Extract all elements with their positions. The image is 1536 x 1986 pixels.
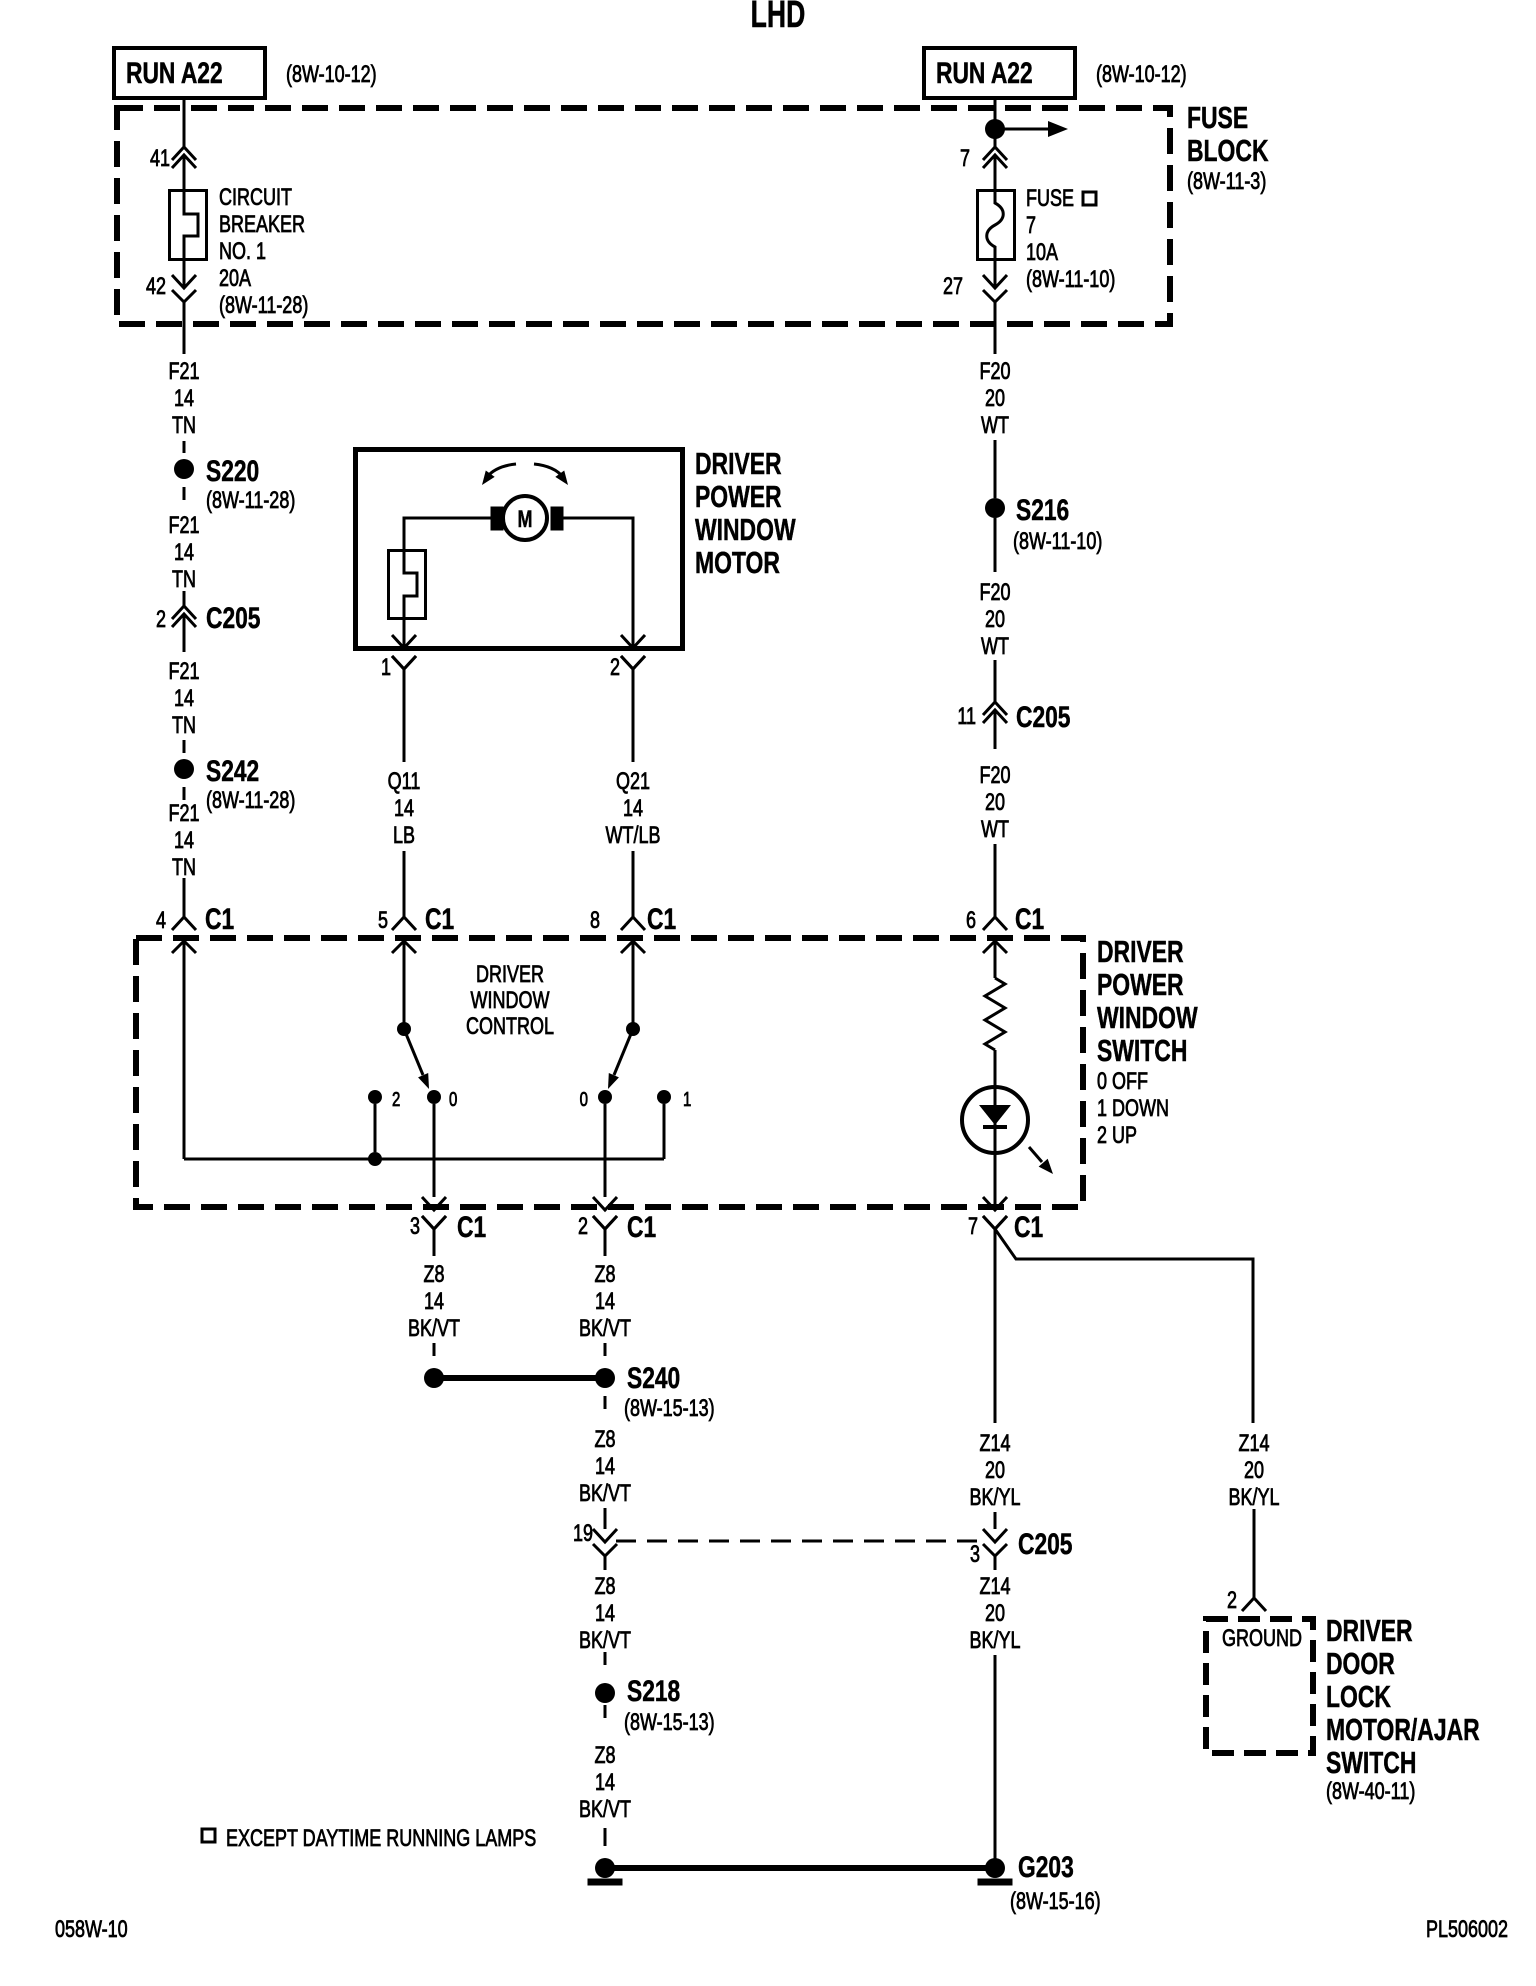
svg-text:4: 4 — [156, 908, 166, 934]
wire dash above S240 left — [433, 1343, 436, 1356]
wire dash below S220 — [183, 487, 186, 500]
svg-text:2: 2 — [610, 655, 620, 681]
svg-text:Z8: Z8 — [594, 1574, 615, 1600]
svg-text:C1: C1 — [425, 902, 454, 936]
driver power window switch boundary (dashed) — [136, 938, 1083, 1207]
wire pin41 to circuit breaker — [183, 155, 186, 190]
wire label F21 14 TN (1) — [168, 359, 199, 439]
title LHD — [751, 0, 806, 35]
connector pin 27 — [943, 274, 1007, 302]
svg-text:DRIVER: DRIVER — [695, 446, 782, 481]
wire label Z8 14 BK/VT (4) — [579, 1743, 631, 1823]
wire F20 to S216 — [994, 440, 997, 498]
svg-text:F20: F20 — [979, 580, 1010, 606]
fuse block boundary (dashed) — [117, 108, 1170, 324]
connector 3 C205 — [970, 1527, 1073, 1568]
svg-text:TN: TN — [172, 413, 196, 439]
svg-text:DOOR: DOOR — [1326, 1646, 1395, 1681]
label DRIVER WINDOW CONTROL — [466, 962, 554, 1040]
svg-text:BK/VT: BK/VT — [579, 1481, 631, 1507]
svg-text:(8W-15-13): (8W-15-13) — [624, 1396, 715, 1422]
connector pin 3 C1 — [410, 1197, 486, 1244]
svg-text:20A: 20A — [219, 266, 252, 292]
driver power window motor box — [356, 450, 683, 649]
svg-text:(8W-15-16): (8W-15-16) — [1010, 1889, 1101, 1915]
svg-text:5: 5 — [378, 908, 388, 934]
svg-text:F21: F21 — [168, 801, 199, 827]
svg-text:1: 1 — [683, 1088, 691, 1111]
svg-text:8: 8 — [590, 908, 600, 934]
wire motor pin2 down — [632, 669, 635, 762]
wire Q11 to pin 5 — [403, 851, 406, 917]
svg-text:0: 0 — [580, 1088, 588, 1111]
node RUN A22 (right feed box) — [924, 48, 1075, 98]
svg-text:Z8: Z8 — [423, 1262, 444, 1288]
svg-text:C1: C1 — [1014, 1210, 1043, 1244]
svg-text:14: 14 — [623, 796, 643, 822]
svg-text:14: 14 — [595, 1454, 615, 1480]
sheet number 058W-10 — [55, 1917, 128, 1943]
svg-text:14: 14 — [174, 540, 194, 566]
wire F21 to pin 4 C1 — [183, 878, 186, 917]
svg-text:LHD: LHD — [751, 0, 806, 35]
daytime-lamp footnote square (fuse) — [1083, 192, 1096, 205]
wire pin27 to box edge — [994, 302, 997, 327]
motor rotation arc right — [534, 464, 568, 485]
svg-text:LOCK: LOCK — [1326, 1679, 1391, 1714]
wire branch pin7 to door lock — [995, 1229, 1253, 1423]
wire pin 5 to left switch pivot — [403, 941, 406, 1024]
wire fuse to pin 27 — [994, 258, 997, 288]
motor rotation arc left — [482, 464, 516, 485]
svg-text:LB: LB — [393, 823, 415, 849]
wire breaker to motor pin 1 — [403, 617, 406, 648]
svg-text:SWITCH: SWITCH — [1326, 1745, 1416, 1780]
svg-text:GROUND: GROUND — [1222, 1626, 1302, 1652]
svg-text:CIRCUIT: CIRCUIT — [219, 185, 292, 211]
svg-text:NO. 1: NO. 1 — [219, 239, 266, 265]
circuit breaker no.1 CB1 — [170, 191, 207, 260]
svg-text:TN: TN — [172, 855, 196, 881]
label (8W-10-12) left — [286, 62, 377, 88]
svg-text:Z14: Z14 — [979, 1574, 1010, 1600]
left switch arm (to 0) — [404, 1029, 429, 1089]
svg-text:WT: WT — [981, 817, 1009, 843]
wire pin7 to fuse — [994, 155, 997, 190]
svg-text:WT: WT — [981, 413, 1009, 439]
svg-text:TN: TN — [172, 567, 196, 593]
wire dash below S240 — [604, 1396, 607, 1409]
svg-text:BK/YL: BK/YL — [969, 1485, 1020, 1511]
svg-text:2: 2 — [1227, 1588, 1237, 1614]
LED indicator — [962, 1087, 1053, 1205]
footnote EXCEPT DAYTIME RUNNING LAMPS — [202, 1826, 536, 1852]
connector pin 7 (fuse feed) — [960, 146, 1007, 172]
svg-text:20: 20 — [985, 790, 1005, 816]
wire dash above S240 right — [604, 1343, 607, 1356]
connector pin 6 C1 — [966, 902, 1044, 953]
svg-text:POWER: POWER — [1097, 967, 1184, 1002]
wire S216 down — [994, 518, 997, 572]
connector pin 4 C1 — [156, 902, 234, 953]
wire from RUN A22 right into fuse block — [994, 98, 997, 147]
wire motor right lead — [563, 518, 633, 648]
wire label Z14 20 BK/YL (branch) — [1228, 1431, 1279, 1511]
connector pin 41 — [150, 146, 196, 172]
node RUN A22 (left feed box) — [114, 48, 265, 98]
motor M1 (window motor) — [491, 496, 563, 540]
svg-text:20: 20 — [985, 1601, 1005, 1627]
wire up to contact 1 — [663, 1104, 666, 1159]
svg-text:(8W-10-12): (8W-10-12) — [1096, 62, 1187, 88]
svg-text:C205: C205 — [1018, 1527, 1073, 1561]
wire pin 3 down — [433, 1229, 436, 1256]
motor internal circuit breaker — [389, 551, 426, 619]
svg-text:WT/LB: WT/LB — [606, 823, 661, 849]
svg-text:(8W-11-10): (8W-11-10) — [1026, 267, 1115, 293]
wire dash above S220 — [183, 441, 186, 453]
connector pin 5 C1 — [378, 902, 454, 953]
splice S218 — [595, 1674, 715, 1736]
svg-text:11: 11 — [957, 704, 976, 730]
svg-text:EXCEPT DAYTIME RUNNING LAMPS: EXCEPT DAYTIME RUNNING LAMPS — [226, 1826, 536, 1852]
wire F20 to pin 6 C1 — [994, 844, 997, 917]
contact 1 node — [657, 1088, 691, 1111]
svg-text:2: 2 — [392, 1088, 400, 1111]
wire label F21 14 TN (4) — [168, 801, 199, 881]
svg-text:2 UP: 2 UP — [1097, 1123, 1137, 1149]
wire label F20 20 WT (2) — [979, 580, 1010, 660]
svg-text:FUSE: FUSE — [1026, 186, 1074, 212]
wire fuse block to F20 label — [994, 327, 997, 354]
svg-text:C205: C205 — [206, 601, 261, 635]
svg-text:FUSE: FUSE — [1187, 100, 1248, 135]
sheet code PL506002 — [1426, 1917, 1508, 1943]
svg-text:(8W-11-3): (8W-11-3) — [1187, 169, 1266, 195]
svg-text:27: 27 — [943, 274, 963, 300]
splice S216 — [985, 493, 1102, 555]
svg-text:20: 20 — [1244, 1458, 1264, 1484]
label CIRCUIT BREAKER NO. 1 20A (8W-11-28) — [219, 185, 308, 319]
svg-text:RUN A22: RUN A22 — [936, 56, 1033, 90]
svg-text:Z14: Z14 — [1238, 1431, 1269, 1457]
label DRIVER POWER WINDOW MOTOR — [695, 446, 796, 580]
svg-text:(8W-11-28): (8W-11-28) — [206, 788, 295, 814]
wire dash above ground — [604, 1828, 607, 1846]
connector pin 7 C1 — [968, 1197, 1043, 1244]
svg-text:7: 7 — [960, 146, 970, 172]
ground bus wire — [605, 1865, 995, 1871]
svg-text:BK/VT: BK/VT — [408, 1316, 460, 1342]
wire Z14 to ground G203 — [994, 1655, 997, 1868]
svg-text:BLOCK: BLOCK — [1187, 133, 1269, 168]
wire label Q21 14 WT/LB — [606, 769, 661, 849]
svg-text:(8W-40-11): (8W-40-11) — [1326, 1779, 1415, 1805]
wire label Z14 20 BK/YL (main 2) — [969, 1574, 1020, 1654]
svg-text:F20: F20 — [979, 763, 1010, 789]
svg-text:C1: C1 — [627, 1210, 656, 1244]
svg-text:S242: S242 — [206, 754, 259, 788]
label DRIVER DOOR LOCK MOTOR/AJAR SWITCH (8W-40-11) — [1326, 1613, 1480, 1805]
svg-text:DRIVER: DRIVER — [1326, 1613, 1413, 1648]
svg-text:14: 14 — [424, 1289, 444, 1315]
svg-text:Q21: Q21 — [616, 769, 650, 795]
wire pin 4 run down — [183, 941, 186, 1159]
splice S242 — [174, 754, 295, 814]
wire label Z8 14 BK/VT (pin3) — [408, 1262, 460, 1342]
svg-text:G203: G203 — [1018, 1850, 1074, 1884]
svg-text:BK/VT: BK/VT — [579, 1628, 631, 1654]
contact 2 node — [368, 1088, 400, 1111]
svg-text:(8W-10-12): (8W-10-12) — [286, 62, 377, 88]
svg-text:(8W-11-28): (8W-11-28) — [219, 293, 308, 319]
label (8W-10-12) right — [1096, 62, 1187, 88]
svg-text:Z14: Z14 — [979, 1431, 1010, 1457]
svg-text:14: 14 — [595, 1601, 615, 1627]
svg-text:(8W-11-10): (8W-11-10) — [1013, 529, 1102, 555]
svg-text:BK/YL: BK/YL — [969, 1628, 1020, 1654]
wire pin4 horizontal run — [184, 1158, 664, 1161]
contact 0 node (left) — [427, 1088, 457, 1111]
wire dash below S218 — [604, 1705, 607, 1718]
wire pin 6 to resistor — [994, 941, 997, 978]
junction node on feed wire — [985, 119, 1005, 139]
wire motor left lead — [404, 518, 491, 550]
svg-text:C205: C205 — [1016, 700, 1071, 734]
label GROUND — [1222, 1626, 1302, 1652]
svg-text:WINDOW: WINDOW — [471, 988, 550, 1014]
wire contact 0 to pin 2 — [604, 1104, 607, 1197]
wire F20 to C205 pin 11 — [994, 660, 997, 702]
wire from RUN A22 left into fuse block — [183, 98, 186, 147]
svg-text:MOTOR: MOTOR — [695, 545, 780, 580]
svg-text:(8W-11-28): (8W-11-28) — [206, 488, 295, 514]
svg-text:WT: WT — [981, 634, 1009, 660]
left switch pivot node — [397, 1022, 411, 1036]
wire Z8 to pin 19 — [604, 1508, 607, 1529]
right switch pivot node — [626, 1022, 640, 1036]
svg-text:19: 19 — [573, 1521, 593, 1547]
wire C205 to F20 label — [994, 710, 997, 749]
wire dash below S242 — [183, 787, 186, 800]
wire Q21 to pin 8 — [632, 851, 635, 917]
svg-text:7: 7 — [1026, 213, 1036, 239]
junction node on pin4 run — [368, 1152, 382, 1166]
driver door lock motor/ajar switch boundary (dashed) — [1206, 1619, 1313, 1753]
label FUSE 7 10A (8W-11-10) — [1026, 186, 1115, 293]
svg-text:14: 14 — [174, 386, 194, 412]
svg-text:14: 14 — [394, 796, 414, 822]
label DRIVER POWER WINDOW SWITCH 0 OFF 1 DOWN 2 UP — [1097, 934, 1198, 1149]
svg-text:DRIVER: DRIVER — [1097, 934, 1184, 969]
svg-text:WINDOW: WINDOW — [695, 512, 796, 547]
dashed link 19 to C205 — [616, 1540, 984, 1543]
svg-text:F21: F21 — [168, 513, 199, 539]
svg-text:S218: S218 — [627, 1674, 680, 1708]
svg-text:POWER: POWER — [695, 479, 782, 514]
svg-text:BK/YL: BK/YL — [1228, 1485, 1279, 1511]
svg-text:BK/VT: BK/VT — [579, 1797, 631, 1823]
svg-text:1 DOWN: 1 DOWN — [1097, 1096, 1169, 1122]
svg-text:RUN A22: RUN A22 — [126, 56, 223, 90]
svg-text:14: 14 — [595, 1289, 615, 1315]
wire label Q11 14 LB — [388, 769, 421, 849]
splice S220 — [174, 454, 295, 514]
wire motor pin1 down — [403, 669, 406, 762]
svg-text:PL506002: PL506002 — [1426, 1917, 1508, 1943]
connector pin 2 (door lock ground) — [1227, 1588, 1266, 1614]
wire pin 7 down — [994, 1229, 997, 1423]
svg-text:Z8: Z8 — [594, 1427, 615, 1453]
wire pin42 to box edge — [183, 302, 186, 327]
wire label Z8 14 BK/VT (pin2) — [579, 1262, 631, 1342]
motor pin 2 connector — [610, 635, 645, 681]
wire dash above S218 — [604, 1652, 607, 1665]
svg-text:7: 7 — [968, 1214, 978, 1240]
svg-text:10A: 10A — [1026, 240, 1059, 266]
splice S240 (bus bar) — [424, 1361, 715, 1422]
svg-text:F21: F21 — [168, 659, 199, 685]
wire label F20 20 WT (1) — [979, 359, 1010, 439]
svg-text:S220: S220 — [206, 454, 259, 488]
svg-text:F20: F20 — [979, 359, 1010, 385]
connector pin 2 C1 — [578, 1197, 656, 1244]
ground node left — [588, 1858, 622, 1885]
wire dash above S242 — [183, 740, 186, 753]
wire label Z14 20 BK/YL (main 1) — [969, 1431, 1020, 1511]
svg-text:M: M — [518, 507, 533, 533]
fuse 7 10A — [978, 191, 1015, 260]
wire Z14 to C205 pin 3 — [994, 1512, 997, 1529]
svg-text:BREAKER: BREAKER — [219, 212, 305, 238]
wire F21 to C205 pin 2 — [183, 591, 186, 606]
svg-text:S240: S240 — [627, 1361, 680, 1395]
svg-text:3: 3 — [970, 1542, 980, 1568]
svg-text:0: 0 — [449, 1088, 457, 1111]
wire fuse block to F21 label — [183, 327, 186, 354]
connector pin 42 — [146, 274, 196, 302]
svg-text:0 OFF: 0 OFF — [1097, 1069, 1148, 1095]
svg-text:20: 20 — [985, 1458, 1005, 1484]
svg-text:1: 1 — [381, 655, 391, 681]
wire contact 0 to pin 3 — [433, 1104, 436, 1197]
wire pin 8 to right switch pivot — [632, 941, 635, 1024]
connector 19 C205 — [573, 1521, 617, 1556]
wire label F21 14 TN (3) — [168, 659, 199, 739]
label FUSE BLOCK — [1187, 100, 1269, 195]
wire branch down to door lock pin — [1253, 1509, 1256, 1598]
svg-text:BK/VT: BK/VT — [579, 1316, 631, 1342]
wire pin19 down — [604, 1556, 607, 1570]
svg-text:6: 6 — [966, 908, 976, 934]
svg-text:S216: S216 — [1016, 493, 1069, 527]
branch arrow to other circuits — [1004, 121, 1068, 137]
wire pin3 C205 down — [994, 1556, 997, 1570]
wire label F21 14 TN (2) — [168, 513, 199, 593]
svg-text:WINDOW: WINDOW — [1097, 1000, 1198, 1035]
svg-text:C1: C1 — [457, 1210, 486, 1244]
svg-text:14: 14 — [595, 1770, 615, 1796]
ground G203 — [978, 1850, 1101, 1915]
svg-text:C1: C1 — [647, 902, 676, 936]
svg-text:Z8: Z8 — [594, 1262, 615, 1288]
resistor (switch illumination) — [985, 978, 1005, 1050]
svg-text:20: 20 — [985, 386, 1005, 412]
wire label Z8 14 BK/VT (2) — [579, 1427, 631, 1507]
wire label F20 20 WT (3) — [979, 763, 1010, 843]
svg-text:C1: C1 — [205, 902, 234, 936]
svg-text:41: 41 — [150, 146, 170, 172]
svg-text:42: 42 — [146, 274, 166, 300]
wire C205 to F21 label — [183, 614, 186, 652]
svg-text:2: 2 — [578, 1214, 588, 1240]
svg-text:14: 14 — [174, 828, 194, 854]
svg-text:SWITCH: SWITCH — [1097, 1033, 1187, 1068]
motor pin 1 connector — [381, 635, 416, 681]
svg-text:MOTOR/AJAR: MOTOR/AJAR — [1326, 1712, 1480, 1747]
svg-text:TN: TN — [172, 713, 196, 739]
svg-text:DRIVER: DRIVER — [476, 962, 544, 988]
svg-text:058W-10: 058W-10 — [55, 1917, 128, 1943]
svg-text:(8W-15-13): (8W-15-13) — [624, 1710, 715, 1736]
wire resistor to LED — [994, 1050, 997, 1088]
svg-text:C1: C1 — [1015, 902, 1044, 936]
connector pin 8 C1 — [590, 902, 676, 953]
svg-text:CONTROL: CONTROL — [466, 1014, 554, 1040]
svg-text:3: 3 — [410, 1214, 420, 1240]
wire label Z8 14 BK/VT (3) — [579, 1574, 631, 1654]
wire pin 2 down — [604, 1229, 607, 1256]
svg-text:F21: F21 — [168, 359, 199, 385]
connector 11 C205 — [957, 700, 1070, 734]
svg-text:20: 20 — [985, 607, 1005, 633]
svg-text:Q11: Q11 — [388, 769, 421, 795]
right switch arm (to 0) — [608, 1029, 633, 1089]
wire circuit breaker to pin 42 — [183, 258, 186, 288]
svg-text:14: 14 — [174, 686, 194, 712]
wire contact 2 to junction — [374, 1104, 377, 1152]
connector 2 C205 — [156, 601, 261, 635]
svg-text:Z8: Z8 — [594, 1743, 615, 1769]
svg-text:2: 2 — [156, 607, 166, 633]
contact 0 node (right) — [580, 1088, 612, 1111]
